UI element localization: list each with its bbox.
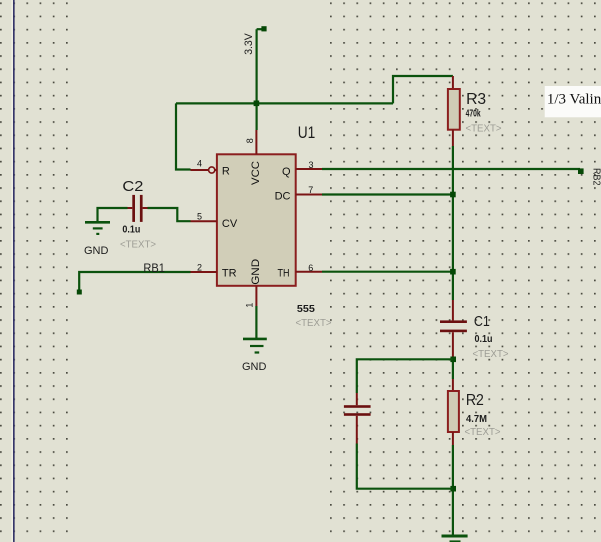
wire VCC rail horizontal xyxy=(176,102,393,104)
svg-text:DC: DC xyxy=(275,191,291,203)
svg-text:<TEXT>: <TEXT> xyxy=(465,426,501,438)
svg-text:8: 8 xyxy=(245,138,255,143)
svg-text:RB2: RB2 xyxy=(591,168,601,186)
svg-text:0.1u: 0.1u xyxy=(475,334,493,345)
svg-text:GND: GND xyxy=(84,245,109,257)
svg-text:<TEXT>: <TEXT> xyxy=(473,348,509,360)
svg-text:6: 6 xyxy=(308,263,313,273)
svg-text:0.1u: 0.1u xyxy=(122,224,140,235)
svg-text:C1: C1 xyxy=(474,313,490,330)
svg-text:VCC: VCC xyxy=(250,161,262,185)
resistor R2 xyxy=(448,379,501,445)
wire R3 down the main rail xyxy=(452,146,454,300)
wire TR to terminal RB1 xyxy=(77,263,191,295)
wire C2 right to pin 5 xyxy=(148,208,191,221)
sheet border xyxy=(11,0,14,542)
power terminal 3.3V xyxy=(243,26,267,55)
svg-text:GND: GND xyxy=(250,259,262,285)
wire pin1 to ground xyxy=(255,306,257,339)
node bottom junction xyxy=(450,486,456,492)
svg-text:2: 2 xyxy=(197,262,202,272)
title box 1/3 Valin xyxy=(545,86,601,117)
pin 8 VCC xyxy=(245,130,262,185)
node C1 bottom junction xyxy=(450,357,456,363)
svg-text:R2: R2 xyxy=(466,392,484,409)
wire jog up to R3 xyxy=(393,76,453,103)
ground at bottom xyxy=(442,536,468,542)
svg-text:RB1: RB1 xyxy=(143,263,165,275)
capacitor C2 xyxy=(120,178,156,251)
capacitor C1 xyxy=(440,300,509,360)
wire left drop to pin 4 xyxy=(176,103,191,169)
pin 7 DC xyxy=(275,185,322,203)
wire branch bottom xyxy=(357,444,453,489)
pin 4 R (active low) xyxy=(191,159,230,178)
pin 3 Q xyxy=(282,160,322,178)
wire C2 left to ground xyxy=(98,208,128,221)
svg-text:R: R xyxy=(222,166,230,178)
svg-text:<TEXT>: <TEXT> xyxy=(120,239,156,251)
svg-text:1/3 Valin: 1/3 Valin xyxy=(547,92,601,108)
wire VCC vertical drop xyxy=(256,29,258,130)
wire branch top (parallel cap) xyxy=(357,359,453,393)
node TH junction xyxy=(450,269,456,275)
ground below U1 xyxy=(242,339,267,373)
wire TH to rail xyxy=(322,271,453,273)
svg-text:<TEXT>: <TEXT> xyxy=(296,317,332,329)
svg-text:CV: CV xyxy=(222,218,238,230)
wire Q to terminal RB2 xyxy=(322,168,601,186)
svg-text:TH: TH xyxy=(278,268,290,280)
svg-text:5: 5 xyxy=(197,212,202,222)
svg-text:3.3V: 3.3V xyxy=(243,33,255,55)
node DC junction xyxy=(450,192,456,198)
svg-text:R3: R3 xyxy=(466,91,486,108)
svg-text:470k: 470k xyxy=(466,107,481,119)
pin 2 TR xyxy=(191,262,237,279)
svg-text:4: 4 xyxy=(197,159,202,169)
wire DC to rail xyxy=(322,193,453,195)
wire R2 to bottom ground xyxy=(452,445,454,536)
ground at C2 xyxy=(84,222,110,257)
node VCC junction xyxy=(254,101,260,107)
op-amp U1 body (555 timer) xyxy=(217,123,332,329)
pin 1 GND xyxy=(245,259,262,308)
svg-text:<TEXT>: <TEXT> xyxy=(466,123,502,135)
wire C1 to R2 xyxy=(452,357,454,379)
svg-text:GND: GND xyxy=(242,361,267,373)
svg-text:1: 1 xyxy=(245,303,255,308)
svg-text:4.7M: 4.7M xyxy=(466,413,487,425)
svg-text:C2: C2 xyxy=(122,178,143,195)
svg-text:3: 3 xyxy=(309,160,314,170)
svg-text:U1: U1 xyxy=(298,123,316,142)
svg-text:Q: Q xyxy=(282,166,291,178)
svg-text:TR: TR xyxy=(222,268,237,280)
svg-text:555: 555 xyxy=(297,303,315,315)
pin 5 CV xyxy=(191,212,238,231)
capacitor C? (parallel with R2) xyxy=(344,393,371,444)
resistor R3 xyxy=(448,76,502,146)
svg-text:7: 7 xyxy=(308,185,313,195)
pin 6 TH xyxy=(278,263,323,280)
